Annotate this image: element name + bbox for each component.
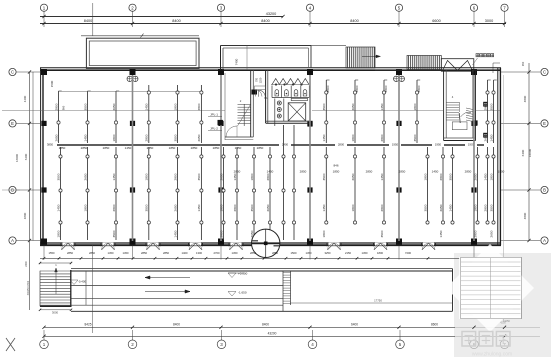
svg-text:1950: 1950: [435, 143, 442, 147]
svg-text:1450: 1450: [483, 173, 487, 180]
svg-text:1450: 1450: [197, 204, 201, 211]
svg-text:6400: 6400: [24, 153, 28, 160]
svg-text:1450: 1450: [173, 230, 177, 237]
svg-text:2400: 2400: [25, 261, 28, 267]
svg-text:3500: 3500: [197, 173, 201, 180]
svg-text:7200: 7200: [405, 251, 411, 255]
svg-text:2700: 2700: [214, 251, 220, 255]
svg-text:1450: 1450: [108, 251, 114, 255]
svg-text:2850: 2850: [366, 169, 373, 173]
svg-text:2800: 2800: [233, 204, 237, 211]
svg-text:3500: 3500: [83, 103, 87, 110]
svg-text:3500: 3500: [173, 134, 177, 141]
svg-text:C: C: [543, 70, 546, 75]
svg-text:1450: 1450: [267, 169, 274, 173]
svg-text:2800: 2800: [219, 230, 223, 237]
svg-text:2650: 2650: [473, 173, 477, 180]
svg-text:2800: 2800: [439, 173, 443, 180]
svg-text:1450: 1450: [380, 103, 384, 110]
svg-text:4400: 4400: [23, 95, 27, 102]
svg-text:3500: 3500: [380, 230, 384, 237]
svg-text:2800: 2800: [54, 103, 58, 110]
svg-text:3500: 3500: [489, 204, 493, 211]
svg-text:1450: 1450: [112, 173, 116, 180]
svg-text:1800: 1800: [489, 173, 493, 180]
svg-text:2850: 2850: [103, 146, 110, 150]
svg-text:A: A: [543, 238, 546, 243]
svg-text:1450: 1450: [123, 251, 129, 255]
svg-text:2800: 2800: [326, 85, 330, 92]
svg-text:7400: 7400: [235, 58, 239, 65]
svg-text:2850: 2850: [67, 251, 73, 255]
svg-text:1850: 1850: [333, 169, 340, 173]
svg-text:8600: 8600: [431, 322, 438, 326]
svg-text:43200: 43200: [268, 331, 277, 335]
svg-text:846: 846: [333, 164, 338, 168]
svg-text:2650: 2650: [173, 204, 177, 211]
svg-text:2650: 2650: [83, 173, 87, 180]
svg-text:2650: 2650: [197, 134, 201, 141]
svg-text:1800: 1800: [219, 204, 223, 211]
svg-text:1800: 1800: [423, 173, 427, 180]
svg-text:6400: 6400: [351, 322, 358, 326]
svg-text:A: A: [11, 238, 14, 243]
svg-text:16000: 16000: [15, 154, 19, 162]
svg-text:3250: 3250: [325, 251, 331, 255]
svg-text:1450: 1450: [362, 251, 368, 255]
svg-text:JPL-1: JPL-1: [210, 113, 218, 117]
svg-text:2800: 2800: [266, 173, 270, 180]
svg-text:2850: 2850: [81, 146, 88, 150]
svg-text:3500: 3500: [56, 173, 60, 180]
svg-text:3500: 3500: [423, 204, 427, 211]
svg-text:8400: 8400: [350, 19, 358, 23]
svg-text:-0.400: -0.400: [78, 280, 86, 284]
svg-text:3500: 3500: [322, 103, 326, 110]
svg-text:8400: 8400: [172, 19, 180, 23]
svg-text:1450: 1450: [83, 134, 87, 141]
svg-text:B: B: [543, 188, 546, 193]
svg-text:B1: B1: [264, 96, 268, 100]
svg-text:2650: 2650: [219, 173, 223, 180]
svg-text:1450: 1450: [489, 134, 493, 141]
svg-text:1850: 1850: [59, 146, 66, 150]
svg-text:4800: 4800: [523, 212, 527, 219]
svg-text:2150: 2150: [345, 251, 351, 255]
svg-text:2850: 2850: [89, 251, 95, 255]
svg-text:1800: 1800: [351, 204, 355, 211]
svg-text:1800: 1800: [351, 134, 355, 141]
svg-text:1550: 1550: [49, 251, 55, 255]
svg-text:4800: 4800: [23, 212, 27, 219]
svg-text:2850: 2850: [234, 169, 241, 173]
svg-text:1500: 1500: [50, 80, 54, 87]
svg-text:4800: 4800: [523, 95, 527, 102]
svg-text:2650: 2650: [54, 134, 58, 141]
svg-text:1250: 1250: [259, 77, 263, 83]
svg-text:2650: 2650: [489, 230, 493, 237]
svg-text:6600: 6600: [432, 19, 440, 23]
svg-text:1450: 1450: [439, 230, 443, 237]
svg-text:900: 900: [62, 105, 66, 110]
svg-text:E: E: [11, 121, 14, 126]
svg-text:2800: 2800: [173, 173, 177, 180]
svg-text:8400: 8400: [84, 19, 92, 23]
svg-text:300X50=1500: 300X50=1500: [28, 280, 30, 295]
svg-text:E: E: [543, 121, 546, 126]
svg-text:1450: 1450: [56, 204, 60, 211]
svg-text:3500: 3500: [448, 173, 452, 180]
svg-text:2850: 2850: [250, 251, 256, 255]
svg-text:1450: 1450: [380, 173, 384, 180]
svg-text:1800: 1800: [83, 204, 87, 211]
svg-text:1800: 1800: [322, 230, 326, 237]
svg-text:2850: 2850: [300, 169, 307, 173]
svg-text:1450: 1450: [306, 251, 312, 255]
svg-text:2850: 2850: [257, 146, 264, 150]
svg-text:2800: 2800: [473, 230, 477, 237]
svg-text:2650: 2650: [439, 204, 443, 211]
svg-text:JPL-2: JPL-2: [210, 127, 218, 131]
svg-text:2850: 2850: [147, 146, 154, 150]
svg-text:3500: 3500: [413, 134, 417, 141]
svg-text:1400: 1400: [182, 251, 188, 255]
svg-text:3500: 3500: [145, 204, 149, 211]
svg-text:3000: 3000: [52, 311, 59, 315]
svg-text:2850: 2850: [399, 169, 406, 173]
svg-text:2800: 2800: [380, 204, 384, 211]
svg-text:3000: 3000: [485, 19, 493, 23]
svg-text:2850: 2850: [141, 251, 147, 255]
svg-text:2800: 2800: [380, 134, 384, 141]
svg-text:8400: 8400: [261, 19, 269, 23]
svg-text:www.zhulong.com: www.zhulong.com: [472, 352, 512, 358]
svg-text:1450: 1450: [448, 204, 452, 211]
svg-text:2800: 2800: [483, 204, 487, 211]
svg-text:3500: 3500: [489, 103, 493, 110]
svg-text:1450: 1450: [322, 134, 326, 141]
svg-text:790: 790: [256, 77, 259, 82]
svg-text:2400: 2400: [282, 143, 289, 147]
svg-text:3500: 3500: [322, 173, 326, 180]
svg-text:17750: 17750: [374, 299, 382, 303]
svg-text:16000: 16000: [528, 148, 532, 157]
svg-text:350: 350: [521, 61, 525, 66]
svg-text:2650: 2650: [483, 134, 487, 141]
svg-text:1450: 1450: [233, 173, 237, 180]
svg-text:1850: 1850: [498, 169, 505, 173]
svg-text:2800: 2800: [355, 85, 359, 92]
svg-text:1800: 1800: [473, 204, 477, 211]
svg-text:2800: 2800: [112, 204, 116, 211]
svg-text:2850: 2850: [191, 146, 198, 150]
svg-text:3850: 3850: [47, 143, 54, 147]
svg-text:2800: 2800: [417, 85, 421, 92]
svg-text:1800: 1800: [56, 230, 60, 237]
svg-text:C: C: [11, 70, 14, 75]
svg-text:1800: 1800: [377, 251, 383, 255]
svg-text:2650: 2650: [112, 103, 116, 110]
svg-text:1800: 1800: [413, 103, 417, 110]
svg-text:1450: 1450: [235, 146, 242, 150]
svg-text:1850: 1850: [169, 146, 176, 150]
svg-text:2650: 2650: [351, 173, 355, 180]
svg-text:8400: 8400: [173, 322, 180, 326]
svg-text:8400: 8400: [262, 322, 269, 326]
svg-text:2850: 2850: [163, 251, 169, 255]
svg-text:43200: 43200: [266, 12, 277, 16]
svg-text:2850: 2850: [272, 251, 278, 255]
svg-text:2800: 2800: [145, 134, 149, 141]
svg-text:1300: 1300: [196, 251, 202, 255]
svg-text:2650: 2650: [266, 204, 270, 211]
svg-text:1800: 1800: [112, 134, 116, 141]
svg-text:3500: 3500: [112, 230, 116, 237]
svg-text:1800: 1800: [250, 173, 254, 180]
svg-text:1450: 1450: [322, 204, 326, 211]
svg-text:+0.000: +0.000: [238, 272, 248, 276]
svg-text:2800: 2800: [384, 85, 388, 92]
svg-text:1450: 1450: [432, 169, 439, 173]
svg-text:3500: 3500: [250, 204, 254, 211]
svg-text:1500: 1500: [291, 251, 297, 255]
svg-text:2650: 2650: [351, 103, 355, 110]
svg-text:2800: 2800: [197, 103, 201, 110]
svg-text:4250: 4250: [500, 321, 506, 325]
svg-text:8425: 8425: [84, 322, 91, 326]
svg-text:1450: 1450: [232, 251, 238, 255]
svg-text:-1.650: -1.650: [238, 291, 247, 295]
svg-text:1950: 1950: [392, 143, 399, 147]
svg-text:1800: 1800: [173, 103, 177, 110]
svg-text:1450: 1450: [145, 103, 149, 110]
svg-text:2800: 2800: [483, 103, 487, 110]
svg-text:2800: 2800: [338, 143, 345, 147]
svg-text:1450: 1450: [125, 146, 132, 150]
svg-text:1800: 1800: [145, 173, 149, 180]
svg-text:6400: 6400: [521, 149, 525, 156]
svg-text:2850: 2850: [465, 169, 472, 173]
svg-text:2850: 2850: [213, 146, 220, 150]
